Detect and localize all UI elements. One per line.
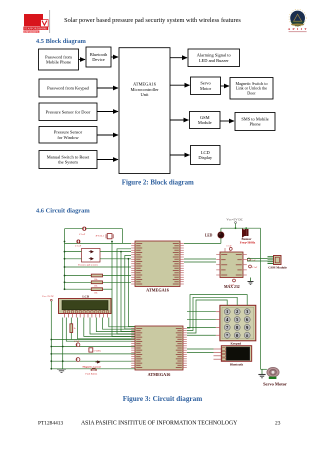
svg-text:Phone: Phone [249, 122, 260, 127]
svg-text:ASIA PASIFIC INSITITUE OF INFO: ASIA PASIFIC INSITITUE OF INFORMATION TE… [81, 420, 238, 426]
svg-text:GSM Module: GSM Module [268, 266, 287, 270]
magnetic sensor [96, 361, 100, 363]
keypad [220, 305, 256, 341]
svg-text:C 1uF: C 1uF [74, 341, 80, 343]
wire keypad rows [187, 311, 216, 313]
GSM module [268, 256, 282, 265]
wire LCD gnd rail [62, 318, 64, 370]
block: Pressure Sensor for Door [39, 103, 97, 121]
pressure pad sensors box [82, 249, 101, 263]
block: Manual Switch to Reset the System [39, 151, 97, 169]
svg-text:Vcc=5V DC: Vcc=5V DC [42, 295, 54, 298]
wire keypad columns [187, 300, 227, 333]
wire vertical bus bundle [112, 242, 135, 337]
svg-text:LED and Buzzer: LED and Buzzer [199, 58, 229, 63]
block: Magnetic Switch to Link or Unlock the Door [230, 78, 273, 100]
svg-text:for Window: for Window [57, 135, 79, 140]
header right logo: APIIT globe [288, 9, 308, 32]
LCD1 display [59, 299, 112, 318]
block: Alarming Signal to LED and Buzzer [188, 49, 240, 67]
capacitor C3 (top of MAX232) [225, 248, 232, 253]
svg-text:X-TAL1: X-TAL1 [96, 234, 105, 237]
block: Servo Motor [191, 77, 221, 95]
capacitor C6 (below MAX232) [233, 279, 236, 282]
svg-text:ATMEGA16: ATMEGA16 [146, 288, 169, 293]
buzzer BZ1 [242, 228, 249, 237]
junction dots bottom rails [50, 339, 52, 341]
svg-text:Mobile Phone: Mobile Phone [46, 60, 71, 65]
block: SMS to Mobile Phone [235, 113, 275, 131]
capacitor C8 [76, 358, 80, 362]
wire LED signal [184, 242, 221, 244]
svg-text:Figure 3: Circuit diagram: Figure 3: Circuit diagram [123, 395, 202, 403]
svg-text:C 1uF: C 1uF [79, 233, 86, 236]
arrows of block diagram [79, 59, 86, 61]
block: LCD Display [191, 146, 221, 165]
ground (servo) [258, 369, 265, 378]
svg-text:Pressure Sensor for Door: Pressure Sensor for Door [46, 109, 91, 114]
wire servo feed [261, 368, 267, 370]
wire Vcc rail bottom [50, 301, 52, 369]
crystal X-TAL1 [106, 234, 113, 239]
svg-text:Display: Display [198, 155, 213, 160]
capacitor C4 (right of MAX232) [247, 258, 250, 261]
svg-text:Door: Door [247, 90, 256, 95]
resistor R1 [65, 275, 92, 277]
svg-text:Freq=500Hz: Freq=500Hz [240, 241, 256, 245]
wire U3 to bluetooth [187, 348, 214, 350]
bluetooth module [214, 346, 252, 362]
servo motor M1 [267, 367, 279, 379]
svg-text:C 1uF: C 1uF [227, 246, 233, 248]
wire top rail right [221, 227, 261, 229]
wire U1 to MAX232 [184, 258, 216, 260]
ground (below MAX232) [248, 278, 254, 285]
block: Password from Mobile Phone [39, 49, 79, 70]
svg-text:STAFFORDSHIRE: STAFFORDSHIRE [24, 27, 47, 30]
wire MAX232 to GSM [247, 258, 268, 260]
svg-text:4.6 Circuit diagram: 4.6 Circuit diagram [36, 207, 90, 214]
junction dots left rail [64, 241, 66, 243]
block: ATMEGA16 Microcontroller Unit (central) [119, 48, 170, 174]
block: GSM Module [190, 112, 221, 129]
header left logo: Staffordshire University [23, 10, 49, 34]
svg-text:Bluetooth: Bluetooth [230, 363, 244, 367]
wire xtal drop [122, 229, 124, 244]
svg-text:the System: the System [58, 160, 78, 165]
capacitor C2 [77, 240, 80, 243]
svg-text:Vcc=5V DC: Vcc=5V DC [226, 218, 243, 222]
svg-text:Solar power based pressure pad: Solar power based pressure pad security … [64, 17, 241, 24]
svg-text:Push Button: Push Button [86, 373, 99, 376]
svg-text:C 1uF: C 1uF [75, 245, 82, 248]
svg-text:Servo Motor: Servo Motor [263, 382, 287, 387]
op-amp U2 MAX 232 [220, 252, 243, 278]
wire rows bottom-left [51, 339, 135, 341]
svg-text:Keypad: Keypad [230, 341, 241, 345]
block: Bluetooth Device [86, 47, 111, 67]
svg-text:23: 23 [275, 420, 281, 426]
wire sensor row 1 [65, 251, 82, 253]
resistor R3 [65, 288, 92, 290]
wire top [65, 228, 123, 230]
wire right rail [260, 228, 262, 369]
svg-text:C 1uF: C 1uF [252, 267, 258, 269]
push button SW1 [91, 368, 98, 370]
resistor R4 (LCD contrast) [70, 318, 72, 324]
node Vcc rail left / wire [64, 229, 66, 290]
op-amp U1 ATMEGA16 (top microcontroller) [135, 241, 180, 287]
svg-text:A P I I T: A P I I T [288, 27, 308, 31]
svg-text:Unit: Unit [141, 92, 150, 97]
wire sensor row 2 [65, 258, 82, 260]
junction dots bus [111, 241, 113, 243]
svg-text:Module: Module [198, 120, 212, 125]
svg-text:Device: Device [92, 57, 105, 62]
LED D1 [218, 232, 224, 238]
svg-text:Pressure pad sensors: Pressure pad sensors [78, 264, 98, 267]
capacitor C1 [83, 227, 86, 230]
svg-text:Figure 2: Block diagram: Figure 2: Block diagram [122, 179, 194, 186]
svg-text:C-50Hz: C-50Hz [94, 350, 101, 352]
svg-text:UNIVERSITY: UNIVERSITY [24, 32, 39, 34]
capacitor C7 [76, 343, 80, 347]
resistor R2 [65, 281, 92, 283]
svg-text:Motor: Motor [200, 86, 212, 91]
svg-text:LCD: LCD [82, 295, 89, 299]
svg-text:C 1uF: C 1uF [229, 285, 235, 287]
wire row [65, 266, 132, 268]
transistor U3 ATMEGA16 (bottom microcontroller) [135, 326, 183, 370]
svg-text:LED: LED [205, 234, 213, 238]
wire to XTAL2 [65, 242, 132, 244]
block: Password from Keypad [39, 79, 97, 97]
block: Pressure Sensor for Window [39, 127, 97, 144]
svg-text:PT1284413: PT1284413 [38, 420, 63, 426]
svg-text:4.5 Block diagram: 4.5 Block diagram [36, 38, 87, 45]
svg-text:Password from Keypad: Password from Keypad [47, 86, 89, 91]
capacitor C5 (right lower) [249, 265, 252, 268]
wire LCD data staircase [66, 318, 135, 342]
ground (bottom left) [57, 369, 66, 372]
svg-text:ATMEGA16: ATMEGA16 [148, 372, 171, 377]
crystal X2 [89, 348, 93, 352]
